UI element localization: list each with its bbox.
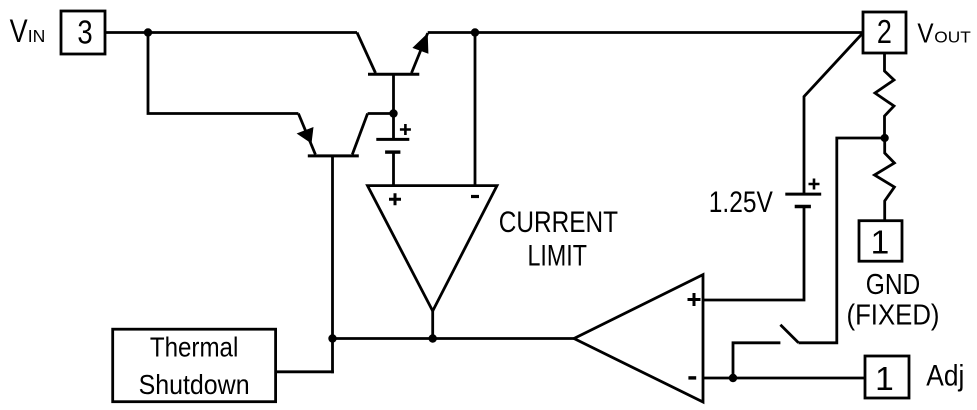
thermal shutdown block [113,329,276,402]
svg-text:1: 1 [871,224,890,261]
svg-text:2: 2 [877,14,892,51]
resistor R1 [875,54,894,139]
pin 1 box GND [859,221,902,262]
transistor Q2 (PNP driver) [297,114,368,156]
svg-text:OUT: OUT [934,29,971,46]
op-amp error amplifier [574,275,703,402]
pin label VIN [10,13,46,49]
svg-text:Adj: Adj [926,360,964,393]
wire comparator output [431,311,434,339]
node comparator output on drive line [429,334,437,342]
node VIN branch [144,28,152,36]
wire Adj branch up to switch [733,343,780,378]
node divider midpoint [881,134,889,142]
svg-text:LIMIT: LIMIT [528,240,587,273]
pin label VOUT [917,17,971,48]
svg-text:3: 3 [77,15,92,52]
wire Q2 base vertical [331,156,334,373]
wire Q1 emitter to VOUT pin [428,31,863,34]
svg-text:IN: IN [28,26,46,46]
wire thermal shutdown to drive line [276,370,334,373]
pin 2 box [863,12,906,53]
svg-text:V: V [10,13,29,49]
comparator CURRENT LIMIT [368,186,498,311]
svg-text:V: V [917,17,933,48]
node Adj branch [729,374,737,382]
svg-text:(FIXED): (FIXED) [847,300,940,332]
battery current-limit sense [376,114,411,187]
wire VOUT branch down to current-limit minus input [474,33,477,187]
pin 3 box [61,11,105,54]
wire VIN to Q1 collector [105,31,357,34]
wire error amp minus input to Adj pin [703,377,865,380]
wire Q2 collector to node [368,112,394,115]
wire VIN branch down to Q2 emitter [148,33,298,114]
switch blade [780,325,798,343]
svg-text:Shutdown: Shutdown [139,369,250,400]
svg-text:GND: GND [866,269,921,301]
svg-text:1.25V: 1.25V [709,186,773,219]
resistor R2 [875,138,895,221]
transistor Q1 (NPN pass) [357,33,428,114]
svg-text:Thermal: Thermal [150,332,239,363]
node Q1 base junction [389,109,397,117]
wire drive line to error amp output [333,337,575,340]
svg-text:1: 1 [875,361,894,398]
node VOUT branch [471,28,479,36]
node drive line junction [328,334,336,342]
pin 1 box Adj [865,356,909,398]
label CURRENT LIMIT [499,206,618,273]
battery 1.25V reference [785,33,863,207]
svg-text:CURRENT: CURRENT [499,206,618,239]
wire error amp plus input to reference [703,207,804,301]
wire switch to divider midpoint [799,138,885,343]
